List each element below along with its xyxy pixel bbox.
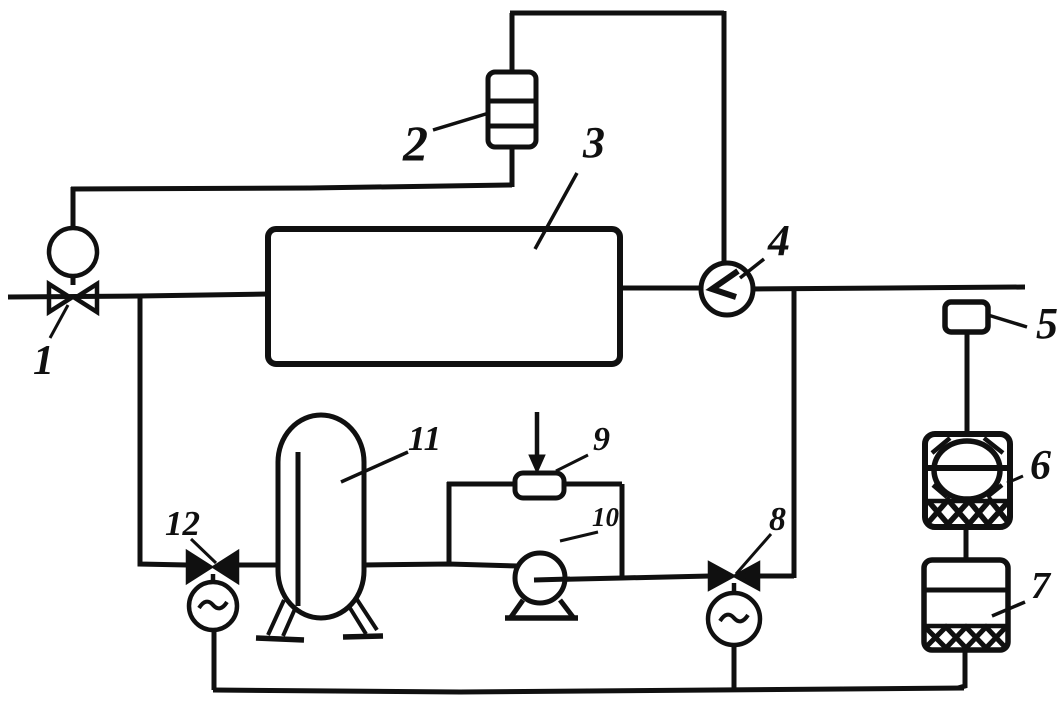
svg-text:10: 10 (592, 502, 620, 532)
wire sensor5 to meter6 (965, 331, 970, 436)
wire valve12 line left (237, 563, 279, 568)
wire circle1 top up (71, 187, 76, 228)
wire valve1 stem to circle (71, 276, 76, 285)
wire pump to valve8 (534, 576, 710, 580)
svg-text:1: 1 (33, 338, 54, 384)
label 2 (402, 113, 489, 171)
svg-text:2: 2 (402, 115, 428, 171)
label 10 (560, 502, 620, 541)
wire top horizontal (510, 11, 724, 16)
wire filter2 top up (510, 13, 515, 74)
svg-text:7: 7 (1031, 565, 1052, 607)
svg-text:5: 5 (1036, 299, 1058, 348)
absorber 7 (924, 560, 1008, 650)
wire absorber7 down to bottom (958, 649, 965, 688)
svg-text:6: 6 (1030, 443, 1051, 489)
label 7 (992, 565, 1052, 616)
wire vertical right branch (792, 287, 797, 578)
wire filter2 bottom stem (510, 145, 515, 187)
valve 8 (708, 564, 760, 645)
vessel 11 (256, 415, 383, 640)
wire meter6 to absorber7 (964, 524, 969, 562)
wire vessel11 to pump10 (363, 564, 518, 566)
label 8 (736, 501, 786, 574)
label 12 (165, 504, 216, 563)
wire bottom horizontal (213, 688, 964, 692)
wire circle8 down to bottom (732, 645, 737, 689)
arrow into orifice 9 (529, 412, 545, 473)
wire down to blower4 (722, 11, 727, 264)
label 1 (33, 305, 68, 384)
svg-text:8: 8 (769, 501, 786, 538)
label 4 (740, 216, 790, 278)
svg-text:11: 11 (408, 419, 441, 458)
valve 12 (188, 553, 237, 630)
orifice 9 (515, 473, 564, 498)
wire bypass loop left vertical (447, 482, 452, 566)
valve 1 (49, 228, 97, 312)
svg-text:9: 9 (593, 421, 610, 458)
wire horizontal to filter2 (71, 185, 512, 189)
label 9 (556, 421, 610, 471)
svg-text:3: 3 (582, 118, 605, 167)
filter 2 (488, 72, 536, 147)
wire reactor3 to blower4 (620, 286, 704, 291)
wire branch down from main line (140, 296, 187, 565)
label 11 (341, 419, 441, 482)
label 5 (988, 299, 1058, 348)
svg-text:12: 12 (165, 504, 200, 543)
svg-text:4: 4 (767, 216, 790, 265)
label 3 (535, 118, 605, 249)
gas meter 6 (925, 434, 1010, 527)
wire bypass loop right vertical (620, 484, 625, 580)
wire circle12 down to bottom (212, 630, 217, 690)
wire bypass loop top (447, 482, 622, 487)
label 6 (1007, 443, 1051, 489)
blower 4 (701, 263, 753, 315)
wire main line right (750, 287, 1025, 289)
sensor 5 (945, 302, 988, 332)
reactor 3 (268, 229, 620, 364)
wire main line left (8, 294, 268, 297)
pump 10 (505, 553, 578, 618)
wire valve8 line (759, 574, 794, 579)
